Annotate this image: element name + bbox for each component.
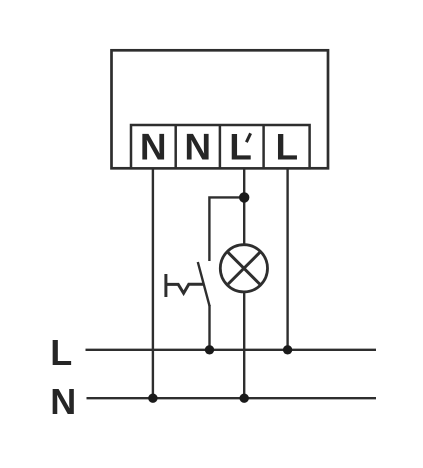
actuator linkage with spring notch: [167, 284, 204, 293]
terminal divider 3: [262, 125, 265, 168]
lamp cross diagonal 1: [227, 252, 260, 285]
wire from lamp bottom down to N line: [243, 292, 245, 399]
svg-text:N: N: [140, 127, 167, 168]
wire from terminal L down to L line: [286, 168, 288, 350]
svg-text:N: N: [184, 127, 211, 168]
svg-text:L: L: [275, 127, 298, 168]
switch blade S1: [198, 262, 210, 306]
branch wire from node to switch (horizontal + upper stub): [209, 197, 244, 261]
wire from switch bottom to L line: [208, 305, 210, 350]
wire from terminal L' down to lamp top: [243, 168, 245, 245]
svg-text:L: L: [229, 127, 252, 168]
junction N1 wire / N line: [148, 394, 157, 403]
junction node above lamp: [239, 192, 249, 202]
junction terminal-L wire / L line: [283, 345, 292, 354]
lamp cross diagonal 2: [227, 252, 260, 285]
terminal divider 1: [174, 125, 177, 168]
terminal block outline: [131, 125, 310, 168]
wire from terminal N1 down to N line: [152, 168, 154, 398]
push-button actuator T bar: [164, 274, 167, 297]
junction switch wire / L line: [205, 345, 214, 354]
svg-text:N: N: [50, 381, 76, 422]
lamp E1 circle: [220, 245, 267, 292]
L supply line: [86, 349, 377, 351]
svg-text:L: L: [50, 332, 72, 373]
device enclosure box: [112, 50, 329, 168]
prime mark of L': [246, 133, 250, 142]
junction lamp wire / N line: [240, 394, 249, 403]
terminal divider 2: [219, 125, 222, 168]
N supply line: [87, 397, 377, 399]
